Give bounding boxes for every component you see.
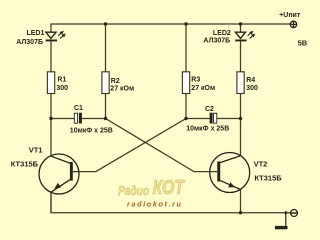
svg-text:R4: R4 xyxy=(246,77,255,84)
wire LED1 to R1 xyxy=(50,41,52,72)
wire LED2 top xyxy=(240,24,242,33)
wire cross-couple C2 to VT1 base xyxy=(73,119,186,172)
label R3 27 кОм xyxy=(191,76,215,92)
label R2 27 кОм xyxy=(110,78,134,93)
resistor R2 xyxy=(102,72,109,94)
label КТ315Б (VT2) xyxy=(254,174,282,183)
svg-text:10мкФ х 25В: 10мкФ х 25В xyxy=(70,128,113,135)
capacitor C2 xyxy=(210,113,217,124)
watermark Радио КОТ xyxy=(118,177,185,199)
label R4 300 xyxy=(246,77,258,92)
wire R2 bottom to C1 xyxy=(105,94,107,119)
label R1 300 xyxy=(56,77,68,92)
resistor R3 xyxy=(182,72,189,94)
svg-text:КТ315Б: КТ315Б xyxy=(254,174,282,183)
wire C1 to R2 node xyxy=(82,118,106,120)
svg-text:C2: C2 xyxy=(205,106,214,113)
wire C1 node to VT1 collector node xyxy=(51,118,75,120)
wire VT2 emitter to bottom rail xyxy=(240,190,242,213)
label 10мкФ х 25В (C1) xyxy=(70,128,113,135)
ground xyxy=(275,213,288,230)
wire VT1 emitter to bottom rail xyxy=(50,192,52,213)
svg-text:5В: 5В xyxy=(298,38,308,47)
svg-text:АЛ307Б: АЛ307Б xyxy=(203,38,230,45)
wire cross-couple C1 to VT2 base xyxy=(106,119,218,172)
svg-text:C1: C1 xyxy=(74,105,83,112)
wire R4 to VT2 collector xyxy=(240,94,242,156)
wire C2 node to R3 node xyxy=(186,118,210,120)
LED LED1 symbol xyxy=(46,31,66,42)
transistor VT1 xyxy=(39,154,79,194)
svg-text:КОТ: КОТ xyxy=(153,177,186,199)
LED LED2 symbol xyxy=(235,31,255,42)
svg-text:АЛ307Б: АЛ307Б xyxy=(16,39,43,46)
label LED2 xyxy=(213,30,231,37)
label C1 xyxy=(74,105,83,112)
wire R3 top xyxy=(185,24,187,72)
label 5В xyxy=(298,38,308,47)
wire R2 top xyxy=(105,24,107,72)
capacitor C1 xyxy=(74,113,82,124)
resistor R1 xyxy=(47,72,54,94)
label VT2 xyxy=(254,160,268,169)
wire R3 bottom to C2 xyxy=(185,94,187,119)
svg-text:300: 300 xyxy=(56,85,68,92)
svg-text:LED1: LED1 xyxy=(26,30,44,37)
svg-text:R1: R1 xyxy=(57,77,66,84)
label 10мкФ х 25В (C2) xyxy=(186,126,229,133)
wire LED2 to R4 xyxy=(240,41,242,72)
watermark radiokot.ru xyxy=(127,200,181,209)
label +Uпит xyxy=(279,12,301,19)
wire bottom rail xyxy=(51,192,291,213)
svg-text:КТ315Б: КТ315Б xyxy=(11,160,39,169)
svg-text:+Uпит: +Uпит xyxy=(279,12,301,19)
resistor R4 xyxy=(237,72,244,94)
svg-text:27 кОм: 27 кОм xyxy=(110,85,134,92)
label LED1 xyxy=(26,30,44,37)
wire C2 to VT2 collector node xyxy=(217,118,241,120)
svg-text:R3: R3 xyxy=(191,76,200,83)
power terminal +Uпит xyxy=(290,21,296,27)
transistor VT2 xyxy=(210,153,250,193)
label АЛ307Б (LED1) xyxy=(16,39,43,46)
minus terminal xyxy=(291,210,298,217)
svg-text:LED2: LED2 xyxy=(213,30,231,37)
svg-text:VT1: VT1 xyxy=(29,146,43,155)
svg-text:R2: R2 xyxy=(111,78,120,85)
wire R1 to VT1 collector xyxy=(50,94,52,157)
svg-text:300: 300 xyxy=(246,85,258,92)
svg-text:VT2: VT2 xyxy=(254,160,268,169)
svg-text:10мкФ х 25В: 10мкФ х 25В xyxy=(186,126,229,133)
label VT1 xyxy=(29,146,43,155)
svg-text:radiokot.ru: radiokot.ru xyxy=(127,200,181,209)
label C2 xyxy=(205,106,214,113)
label АЛ307Б (LED2) xyxy=(203,38,230,45)
svg-text:27 кОм: 27 кОм xyxy=(191,85,215,92)
wire top rail xyxy=(51,24,290,33)
svg-text:Радио: Радио xyxy=(118,183,149,198)
label КТ315Б (VT1) xyxy=(11,160,39,169)
